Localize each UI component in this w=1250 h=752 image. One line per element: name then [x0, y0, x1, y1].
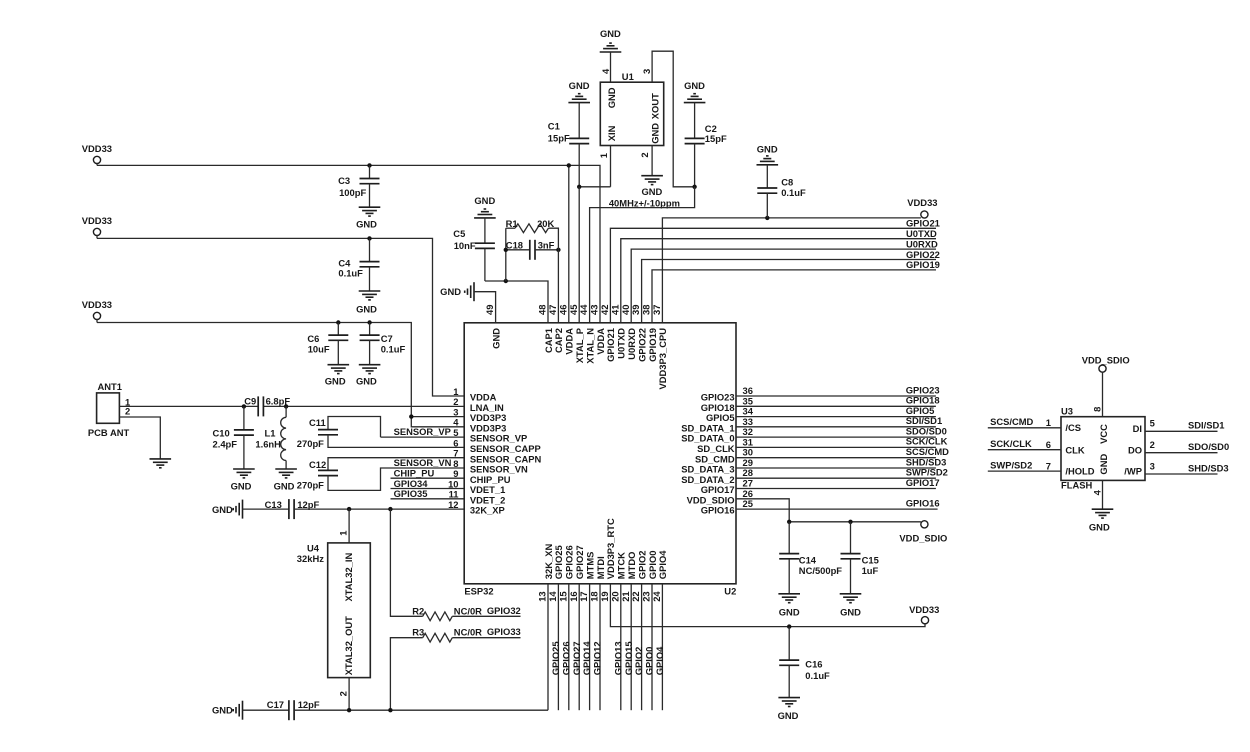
svg-text:GND: GND: [490, 328, 501, 349]
svg-text:25: 25: [743, 498, 753, 509]
node junction row1/C3: [367, 163, 371, 167]
wire stub net GPIO25: [557, 584, 559, 710]
capacitor C11 270pF: [297, 417, 464, 449]
node junction row2/C4: [367, 236, 371, 240]
svg-text:4: 4: [1092, 489, 1103, 495]
capacitor C16 0.1uF: [779, 627, 830, 698]
svg-text:C9: C9: [244, 395, 256, 406]
power terminal VDD33 (bottom right): [909, 604, 939, 624]
pin 36 GPIO23 (U2 right): [701, 385, 753, 403]
pin 1 label U3: [1046, 417, 1051, 428]
svg-text:0.1uF: 0.1uF: [381, 343, 406, 354]
node label SENSOR_VN: [394, 457, 452, 468]
wire net SCK/CLK (pin 31): [736, 446, 936, 448]
node label GPIO0: [644, 647, 655, 676]
svg-text:C18: C18: [506, 239, 523, 250]
node junction C14: [787, 520, 791, 524]
svg-text:/HOLD: /HOLD: [1065, 465, 1094, 476]
wire stub net GPIO4: [661, 584, 663, 710]
svg-text:GPIO16: GPIO16: [701, 505, 735, 516]
svg-text:6: 6: [1046, 439, 1051, 450]
wire U0RXD from pin: [631, 249, 936, 323]
pin 42 GPIO21 (U2 top): [599, 305, 616, 362]
svg-text:1uF: 1uF: [862, 565, 879, 576]
svg-text:40MHz+/-10ppm: 40MHz+/-10ppm: [609, 197, 680, 208]
pin 22 GPIO2 (U2 bottom): [630, 551, 647, 602]
svg-text:MTDI: MTDI: [595, 556, 606, 579]
svg-text:CHIP_PU: CHIP_PU: [394, 467, 435, 478]
svg-text:GND: GND: [778, 710, 799, 721]
svg-text:DO: DO: [1128, 444, 1142, 455]
ground below U1 pin2: [641, 176, 663, 197]
wire stub net GPIO27: [578, 584, 580, 710]
svg-text:3: 3: [641, 69, 652, 74]
pin name DI: [1133, 423, 1142, 434]
svg-text:22: 22: [630, 591, 641, 601]
node label GPIO13: [612, 641, 623, 675]
svg-text:15pF: 15pF: [548, 133, 570, 144]
pin 7 label U3: [1046, 460, 1051, 471]
wire net GPIO5 (pin 34): [736, 416, 936, 418]
svg-text:7: 7: [1046, 460, 1051, 471]
inductor L1 1.6nH: [255, 406, 286, 469]
node junction row3/C6: [336, 320, 340, 324]
ground below C7: [356, 365, 380, 387]
pin 5 SENSOR_VP (U2 left): [453, 427, 527, 444]
svg-text:/WP: /WP: [1124, 465, 1142, 476]
svg-text:GPIO0: GPIO0: [644, 647, 655, 676]
svg-text:SDI/SD1: SDI/SD1: [1188, 420, 1224, 431]
ground above U1 pin4: [600, 28, 622, 52]
svg-text:C13: C13: [265, 499, 282, 510]
node label GPIO5: [906, 405, 935, 416]
ground below U3: [1089, 509, 1113, 532]
power terminal VDD33 (row 1, top left): [82, 143, 112, 166]
ground above C2: [684, 80, 706, 103]
wire net SHD/SD3 (pin 29): [736, 467, 936, 469]
svg-text:GPIO25: GPIO25: [550, 641, 561, 675]
pin 8 label U3: [1092, 407, 1103, 412]
svg-text:XOUT: XOUT: [650, 93, 661, 119]
ground below C15: [840, 594, 862, 618]
pin 2 label U4: [338, 691, 349, 696]
svg-text:C14: C14: [799, 554, 817, 565]
svg-text:19: 19: [599, 591, 610, 601]
svg-text:GPIO22: GPIO22: [906, 249, 940, 260]
resistor R2 NC/0R: [412, 605, 452, 620]
node label GPIO16: [906, 497, 940, 508]
pin 6 label U3: [1046, 439, 1051, 450]
svg-text:VDD33: VDD33: [82, 143, 112, 154]
node label GPIO22: [906, 249, 940, 260]
wire net GPIO23 (pin 36): [736, 395, 936, 397]
svg-text:GPIO26: GPIO26: [560, 641, 571, 675]
wire ANT1 pin1 / LNA_IN line: [119, 405, 464, 407]
svg-text:XTAL_N: XTAL_N: [584, 328, 595, 364]
svg-text:GPIO25: GPIO25: [553, 545, 564, 579]
svg-text:SWP/SD2: SWP/SD2: [990, 460, 1032, 471]
svg-text:U0TXD: U0TXD: [616, 328, 627, 359]
pin name /HOLD: [1065, 465, 1094, 476]
wire GPIO21 from pin: [610, 228, 936, 322]
pin 49 GND (U2 top): [484, 305, 501, 349]
wire net SDO/SD0 (pin 32): [736, 436, 936, 438]
capacitor C13 12pF: [243, 499, 320, 519]
capacitor C15 1uF: [841, 522, 879, 594]
wire XTAL_N to pin44: [590, 187, 695, 323]
svg-text:GND: GND: [757, 144, 778, 155]
power terminal VDD33 (top right): [907, 197, 937, 218]
pin 14 GPIO25 (U2 bottom): [547, 545, 564, 601]
svg-text:GND: GND: [212, 504, 233, 515]
svg-text:GND: GND: [650, 123, 661, 144]
wire net SDI/SD1 (pin 33): [736, 426, 936, 428]
svg-text:GND: GND: [600, 28, 621, 39]
svg-text:GPIO2: GPIO2: [636, 551, 647, 580]
svg-text:NC/0R: NC/0R: [454, 605, 482, 616]
node label U0TXD: [906, 228, 937, 239]
wire 32K_XN net to pin13: [294, 709, 548, 711]
svg-text:NC/0R: NC/0R: [454, 627, 482, 638]
pin 2 label ANT1: [125, 405, 130, 416]
wire net GPIO18 (pin 35): [736, 405, 936, 407]
svg-text:16: 16: [568, 591, 579, 601]
svg-text:43: 43: [589, 305, 600, 315]
ground above C5: [474, 195, 496, 218]
capacitor C12 270pF: [297, 458, 464, 491]
svg-text:1.6nH: 1.6nH: [255, 439, 281, 450]
wire U4 pin1: [348, 509, 350, 543]
value label NC/0R (R3): [454, 627, 482, 638]
svg-text:48: 48: [537, 305, 548, 315]
pin 19 VDD3P3_RTC (U2 bottom): [599, 518, 616, 602]
svg-text:SHD/SD3: SHD/SD3: [1188, 462, 1229, 473]
svg-text:GND: GND: [779, 607, 800, 618]
pin 25 GPIO16 (U2 right): [701, 498, 753, 516]
svg-text:3: 3: [1150, 460, 1155, 471]
wire stub net GPIO2: [641, 584, 643, 710]
pin 16 GPIO27 (U2 bottom): [568, 545, 585, 601]
svg-text:R3: R3: [412, 627, 424, 638]
svg-text:8: 8: [1092, 407, 1103, 412]
svg-text:45: 45: [568, 305, 579, 315]
svg-text:GPIO12: GPIO12: [592, 641, 603, 675]
ground below ANT1 pin2: [150, 459, 172, 468]
wire stub net GPIO13: [620, 584, 622, 710]
node label GPIO27: [571, 641, 582, 675]
svg-text:46: 46: [557, 305, 568, 315]
svg-text:0.1uF: 0.1uF: [781, 187, 806, 198]
svg-text:VCC: VCC: [1098, 424, 1109, 444]
pin 38 GPIO19 (U2 top): [641, 305, 658, 362]
pin 35 GPIO18 (U2 right): [701, 395, 753, 413]
node junction C16: [787, 624, 791, 628]
node label SCS/CMD: [990, 416, 1033, 427]
node label GPIO21: [906, 218, 940, 229]
svg-text:GND: GND: [212, 704, 233, 715]
svg-text:SCS/CMD: SCS/CMD: [990, 416, 1033, 427]
pin 9 CHIP_PU (U2 left): [453, 468, 510, 485]
wire net SCS/CMD (U3 pin 1): [988, 427, 1061, 429]
svg-text:XTAL32_OUT: XTAL32_OUT: [343, 616, 354, 675]
pin 1 VDDA (U2 left): [453, 386, 496, 403]
crystal U1 40MHz: [600, 71, 663, 145]
svg-text:MTCK: MTCK: [616, 552, 627, 579]
svg-text:1: 1: [338, 531, 349, 536]
node label SWP/SD2: [990, 460, 1032, 471]
wire net SDI/SD1 (U3 pin 5): [1145, 430, 1218, 432]
pin 11 VDET_2 (U2 left): [449, 489, 506, 506]
capacitor C5 10nF: [453, 218, 495, 281]
svg-text:0.1uF: 0.1uF: [338, 268, 363, 279]
svg-text:12pF: 12pF: [298, 699, 320, 710]
svg-text:PCB ANT: PCB ANT: [88, 427, 130, 438]
node label GPIO19: [906, 259, 940, 270]
pin 3 label U1: [641, 69, 652, 74]
svg-text:CAP1: CAP1: [543, 328, 554, 353]
svg-text:GPIO22: GPIO22: [636, 328, 647, 362]
svg-text:GND: GND: [606, 87, 617, 108]
wire GPIO22 from pin: [642, 260, 936, 323]
wire GPIO16 net (pin25): [736, 508, 938, 510]
pin 15 GPIO26 (U2 bottom): [557, 545, 574, 601]
ground above C1: [568, 80, 590, 103]
pin 2 label U1: [639, 152, 650, 157]
svg-text:VDD3P3_CPU: VDD3P3_CPU: [657, 328, 668, 390]
pin 41 U0TXD (U2 top): [609, 305, 626, 359]
capacitor C9 6.8pF (series): [244, 395, 290, 416]
ground below C14: [778, 594, 800, 618]
svg-text:GPIO2: GPIO2: [633, 647, 644, 676]
wire GPIO34 pin10: [391, 488, 465, 490]
wire net GPIO17 (pin 27): [736, 488, 936, 490]
svg-text:GPIO27: GPIO27: [574, 545, 585, 579]
svg-text:VDD33: VDD33: [909, 604, 939, 615]
node label SDO/SD0: [906, 425, 947, 436]
node label GPIO25: [550, 641, 561, 675]
node junction C18 left: [504, 248, 508, 252]
wire stub net GPIO0: [651, 584, 653, 710]
svg-text:GND: GND: [356, 219, 377, 230]
node label GPIO15: [623, 641, 634, 675]
svg-text:2: 2: [639, 152, 650, 157]
capacitor C1 15pF: [548, 103, 589, 187]
svg-text:GND: GND: [274, 480, 295, 491]
pin 4 label U1: [600, 68, 611, 74]
pin name DO: [1128, 444, 1142, 455]
ground (sideways) for C17: [212, 701, 243, 720]
svg-text:/CS: /CS: [1065, 422, 1081, 433]
node label GPIO12: [592, 641, 603, 675]
pin 23 GPIO0 (U2 bottom): [641, 551, 658, 602]
svg-text:40: 40: [620, 305, 631, 315]
svg-text:ANT1: ANT1: [98, 381, 122, 392]
pin 4 VDD3P3 (U2 left): [453, 417, 506, 434]
svg-text:GND: GND: [356, 303, 377, 314]
pin 31 SD_CLK (U2 right): [697, 436, 753, 454]
svg-text:GPIO33: GPIO33: [487, 626, 521, 637]
svg-text:GPIO19: GPIO19: [647, 328, 658, 362]
node label GPIO33: [487, 626, 521, 637]
pin 17 MTMS (U2 bottom): [578, 552, 595, 602]
wire VDD33 row2 to pin1 VDDA: [97, 238, 464, 396]
svg-text:VDD3P3_RTC: VDD3P3_RTC: [605, 518, 616, 579]
svg-text:21: 21: [620, 591, 631, 601]
wire GPIO33 stub: [452, 637, 520, 639]
wire net SWP/SD2 (pin 28): [736, 477, 936, 479]
svg-text:15: 15: [557, 591, 568, 601]
node label SWP/SD2: [906, 467, 948, 478]
svg-text:GND: GND: [1098, 454, 1109, 475]
svg-text:MTDO: MTDO: [626, 552, 637, 580]
capacitor C3 100pF: [338, 165, 379, 207]
svg-text:2: 2: [338, 691, 349, 696]
svg-text:270pF: 270pF: [297, 438, 324, 449]
svg-text:44: 44: [578, 304, 589, 315]
pin 1 label ANT1: [125, 396, 130, 407]
svg-text:NC/500pF: NC/500pF: [799, 565, 843, 576]
pin 3 label U3: [1150, 460, 1155, 471]
svg-text:GPIO21: GPIO21: [906, 218, 940, 229]
svg-text:GND: GND: [440, 286, 461, 297]
wire net SHD/SD3 (U3 pin 3): [1145, 473, 1218, 475]
pin 4 label U3: [1092, 489, 1103, 495]
svg-text:C1: C1: [548, 121, 560, 132]
svg-text:1: 1: [598, 153, 609, 158]
node junction C8: [765, 216, 769, 220]
svg-text:1: 1: [1046, 417, 1051, 428]
svg-text:10uF: 10uF: [308, 343, 330, 354]
pin name GND (U1 top-left): [606, 87, 617, 108]
svg-text:42: 42: [599, 305, 610, 315]
svg-text:14: 14: [547, 591, 558, 602]
pin 39 GPIO22 (U2 top): [630, 305, 647, 362]
wire U4 pin2: [348, 678, 350, 711]
svg-text:U0RXD: U0RXD: [906, 238, 938, 249]
pin name XIN: [606, 125, 617, 141]
wire GPIO19 from pin: [652, 270, 936, 323]
svg-text:10nF: 10nF: [454, 240, 476, 251]
wire pin13 32K_XN drop: [547, 584, 549, 710]
svg-text:R1: R1: [506, 218, 518, 229]
svg-text:2: 2: [1150, 439, 1155, 450]
node label SENSOR_VP: [394, 426, 451, 437]
svg-text:GND: GND: [231, 480, 252, 491]
node label SDO/SD0: [1188, 441, 1229, 452]
svg-text:GPIO27: GPIO27: [571, 641, 582, 675]
pin name XTAL32_OUT: [343, 616, 354, 675]
svg-text:GND: GND: [840, 607, 861, 618]
wire GPIO35 pin11: [391, 498, 465, 500]
svg-text:CLK: CLK: [1065, 444, 1084, 455]
node label CHIP_PU: [394, 467, 435, 478]
wire stub net GPIO14: [589, 584, 591, 710]
svg-text:5: 5: [1150, 418, 1155, 429]
wire stub net GPIO15: [630, 584, 632, 710]
svg-text:C17: C17: [267, 699, 284, 710]
svg-text:GPIO35: GPIO35: [394, 488, 428, 499]
pin 29 SD_DATA_3 (U2 right): [681, 457, 753, 475]
svg-text:SENSOR_VP: SENSOR_VP: [394, 426, 451, 437]
wire R1/C18 left leg: [505, 228, 507, 281]
svg-text:GPIO17: GPIO17: [906, 477, 940, 488]
svg-text:VDDA: VDDA: [564, 328, 575, 355]
wire SENSOR_VP pin5: [381, 436, 465, 438]
pin 18 MTDI (U2 bottom): [589, 556, 606, 602]
svg-text:GND: GND: [684, 80, 705, 91]
value label 40MHz+/-10ppm: [609, 197, 680, 208]
svg-text:XTAL_P: XTAL_P: [574, 328, 585, 363]
node junction XIN/C1/pin45: [577, 185, 581, 189]
svg-text:VDD33: VDD33: [82, 215, 112, 226]
pin 46 VDDA (U2 top): [557, 305, 574, 355]
svg-text:XTAL32_IN: XTAL32_IN: [343, 552, 354, 601]
power terminal VDD33 (row 2): [82, 215, 112, 238]
flash chip U3 body: [1061, 406, 1145, 491]
pin name CLK: [1065, 444, 1084, 455]
node label GPIO4: [654, 646, 665, 675]
node junction U4 pin1: [347, 507, 351, 511]
svg-text:VDD_SDIO: VDD_SDIO: [899, 532, 947, 543]
node junction L1: [284, 404, 288, 408]
wire pin46 VDDA drop: [568, 165, 570, 322]
pin 34 GPIO5 (U2 right): [706, 406, 754, 424]
node label GPIO34: [394, 478, 429, 489]
wire GPIO32 stub: [452, 615, 520, 617]
ground below C10: [231, 469, 255, 491]
wire U3 pin8 VCC: [1102, 372, 1104, 417]
svg-text:100pF: 100pF: [339, 187, 366, 198]
wire stub net GPIO26: [568, 584, 570, 710]
pin 40 U0RXD (U2 top): [620, 305, 637, 360]
wire pin49 GND: [474, 292, 496, 323]
svg-text:49: 49: [484, 305, 495, 315]
svg-text:GPIO15: GPIO15: [623, 641, 634, 675]
pin 26 VDD_SDIO (U2 right): [687, 488, 753, 506]
svg-text:GND: GND: [1089, 522, 1110, 533]
node junction CAP1: [504, 279, 508, 283]
capacitor C4 0.1uF: [338, 238, 379, 291]
node label SHD/SD3: [1188, 462, 1229, 473]
svg-text:U2: U2: [724, 585, 736, 596]
svg-text:GPIO0: GPIO0: [647, 551, 658, 580]
pin 7 SENSOR_CAPN (U2 left): [453, 448, 541, 465]
pin 2 LNA_IN (U2 left): [453, 396, 504, 413]
svg-text:17: 17: [578, 591, 589, 601]
wire CAP1 node to pin48: [485, 281, 548, 323]
pin 12 32K_XP (U2 left): [448, 499, 505, 516]
pin name XTAL32_IN: [343, 552, 354, 601]
svg-text:C6: C6: [307, 333, 319, 344]
wire VDD_SDIO rail: [789, 521, 921, 523]
node label SCK/CLK: [906, 436, 948, 447]
wire U1 pin3 XOUT loop: [652, 51, 695, 187]
node label GPIO18: [906, 395, 940, 406]
svg-text:VDD_SDIO: VDD_SDIO: [1082, 354, 1130, 365]
ground below L1: [274, 469, 297, 491]
svg-text:GND: GND: [641, 186, 662, 197]
svg-text:SDO/SD0: SDO/SD0: [1188, 441, 1229, 452]
svg-text:4: 4: [600, 68, 611, 74]
pin 2 label U3: [1150, 439, 1155, 450]
svg-text:23: 23: [641, 591, 652, 601]
svg-text:C11: C11: [309, 417, 326, 428]
value label NC/0R (R2): [454, 605, 482, 616]
crystal U4 32kHz: [297, 542, 371, 677]
svg-text:GPIO26: GPIO26: [564, 545, 575, 579]
pin 8 SENSOR_VN (U2 left): [453, 458, 528, 475]
svg-text:3nF: 3nF: [538, 239, 555, 250]
